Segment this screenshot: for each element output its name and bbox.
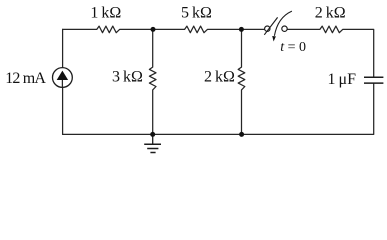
svg-text:1 kΩ: 1 kΩ: [90, 5, 121, 22]
svg-text:1 μF: 1 μF: [328, 71, 357, 88]
svg-text:2 kΩ: 2 kΩ: [204, 68, 235, 85]
svg-text:12 mA: 12 mA: [5, 70, 46, 87]
svg-text:3 kΩ: 3 kΩ: [112, 68, 143, 85]
svg-text:t = 0: t = 0: [280, 40, 306, 55]
svg-text:2 kΩ: 2 kΩ: [315, 5, 346, 22]
svg-text:5 kΩ: 5 kΩ: [181, 5, 212, 22]
